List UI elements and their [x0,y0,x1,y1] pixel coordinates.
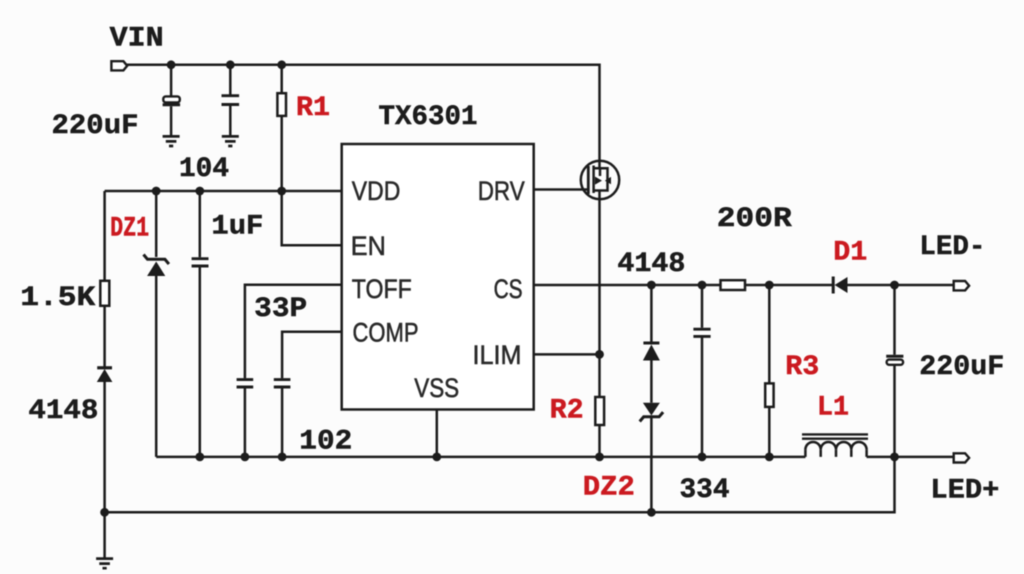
svg-text:33P: 33P [254,294,307,325]
svg-text:R1: R1 [296,93,330,124]
svg-text:LED+: LED+ [930,476,999,507]
svg-text:CS: CS [494,274,523,304]
svg-text:COMP: COMP [353,317,419,347]
svg-text:DZ1: DZ1 [110,214,149,245]
svg-text:R2: R2 [550,396,584,427]
svg-text:TX6301: TX6301 [379,102,478,133]
svg-text:L1: L1 [817,393,849,424]
svg-text:LED-: LED- [919,232,985,263]
svg-text:VIN: VIN [110,24,164,55]
svg-text:1uF: 1uF [211,212,263,243]
svg-text:220uF: 220uF [52,111,139,142]
svg-text:VDD: VDD [352,176,401,206]
svg-text:R3: R3 [785,352,819,383]
svg-text:DRV: DRV [478,176,525,206]
svg-text:104: 104 [179,154,229,185]
svg-text:1.5K: 1.5K [20,283,95,314]
svg-text:TOFF: TOFF [352,274,412,304]
svg-text:D1: D1 [833,238,867,269]
svg-text:200R: 200R [717,204,792,235]
svg-text:DZ2: DZ2 [583,473,635,504]
svg-text:334: 334 [680,475,730,506]
svg-text:VSS: VSS [414,373,459,403]
svg-text:EN: EN [351,231,386,261]
svg-text:220uF: 220uF [919,352,1004,383]
svg-text:102: 102 [299,427,352,458]
svg-text:ILIM: ILIM [473,340,522,370]
svg-text:4148: 4148 [617,249,685,280]
svg-text:4148: 4148 [28,396,98,427]
